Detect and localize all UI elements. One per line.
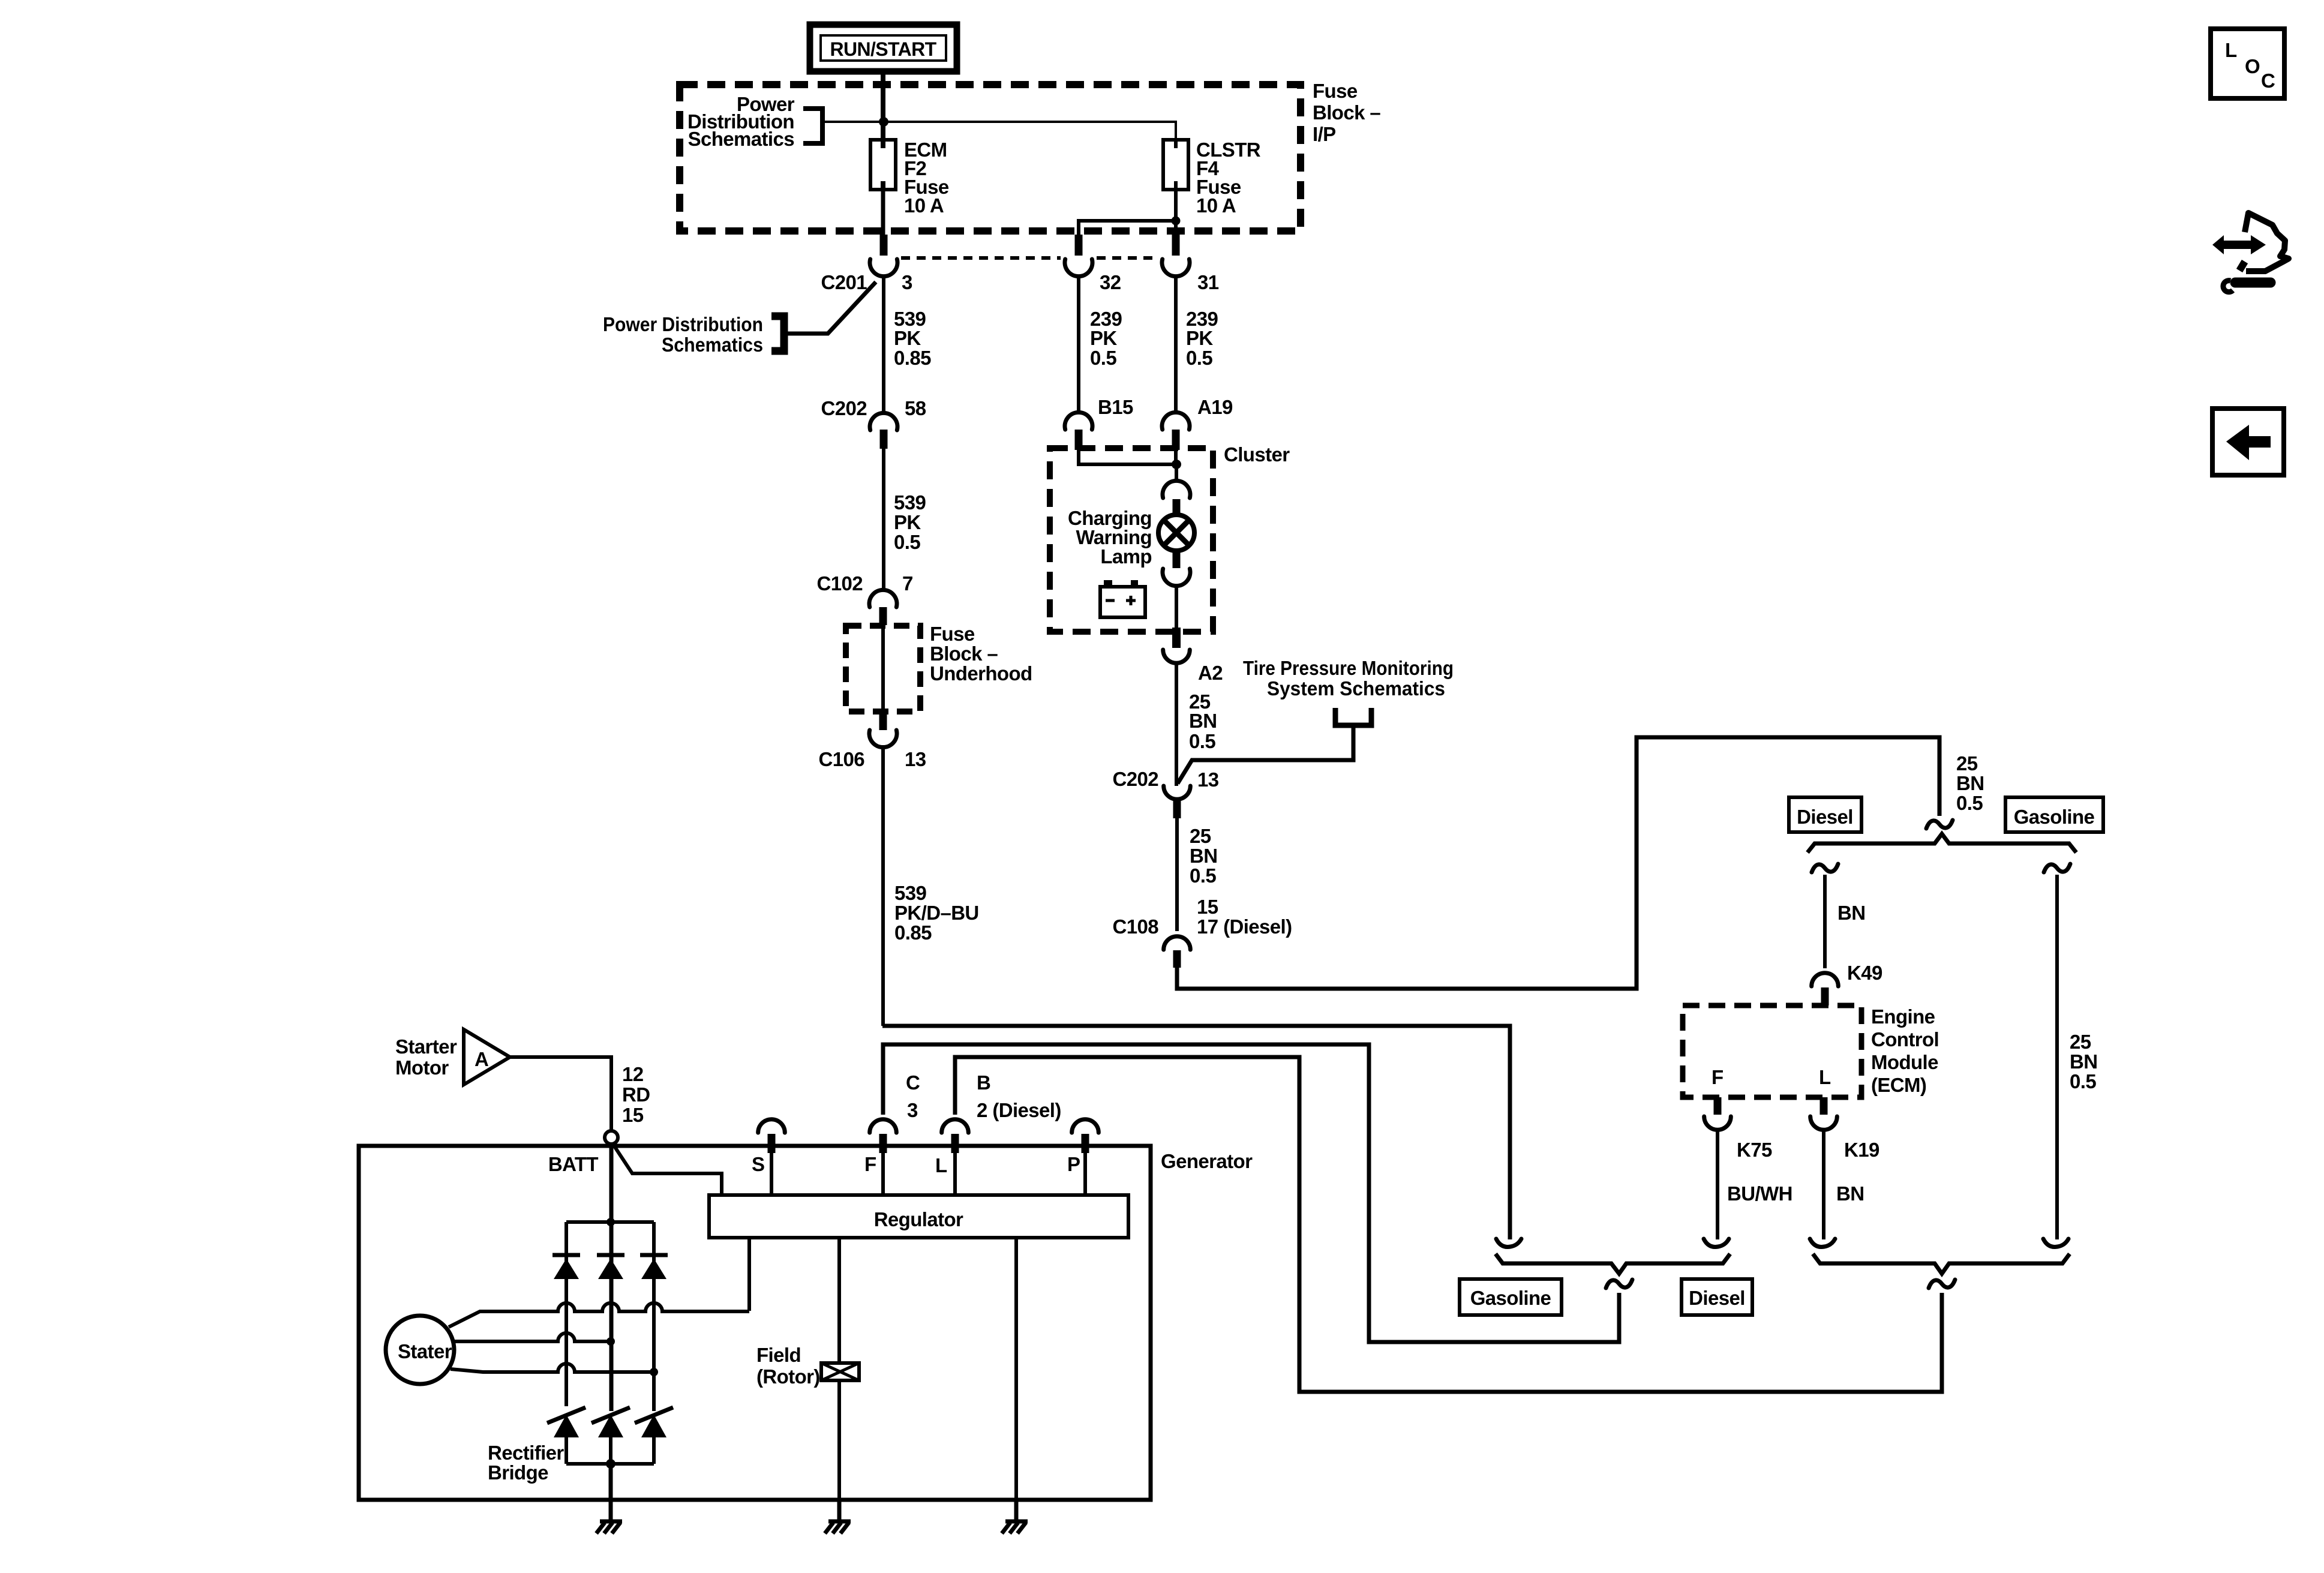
svg-text:BN: BN: [1836, 1182, 1864, 1205]
wire 539 PK/D-BU 0.85: [881, 745, 885, 1026]
svg-text:L: L: [2225, 39, 2237, 61]
svg-text:15: 15: [622, 1104, 644, 1126]
wire BATT to regulator: [612, 1143, 722, 1195]
node rectifier bottom: [606, 1459, 615, 1469]
svg-text:PK: PK: [1186, 327, 1213, 349]
wire BU/WH: [1716, 1131, 1719, 1239]
svg-text:PK: PK: [894, 327, 921, 349]
connector C106 pin 13: [869, 713, 897, 748]
svg-text:C201: C201: [821, 271, 867, 293]
label 539 PK 0.85: [894, 308, 931, 369]
ground field: [837, 1500, 842, 1521]
connector C108: [1164, 936, 1191, 968]
diode rectifier bottom x=1018: [591, 1407, 630, 1437]
svg-text:C102: C102: [817, 572, 863, 595]
wire 539 PK 0.85: [882, 275, 885, 413]
label ECM F2 Fuse 10 A: [904, 139, 949, 217]
rectifier top bus: [566, 1220, 654, 1224]
wire L to regulator: [953, 1153, 957, 1195]
wire 25 BN 0.5 gasoline: [2055, 875, 2059, 1239]
brace diesel/gasoline split: [1807, 834, 2076, 852]
brace splice L wire: [1813, 1254, 2070, 1274]
connector row C201 dashed line: [901, 256, 1061, 260]
svg-text:Bridge: Bridge: [488, 1461, 548, 1484]
engine control module dashed box: [1683, 1005, 1861, 1097]
svg-text:Schematics: Schematics: [688, 128, 794, 150]
wire stator phase 3: [451, 1364, 654, 1372]
connector C102 pin 7: [869, 590, 897, 625]
label 539 PK/D-BU 0.85: [894, 882, 979, 944]
lamp top terminal: [1163, 481, 1190, 515]
wire 12 RD 15: [510, 1057, 611, 1131]
wire bracket to C201: [784, 282, 876, 334]
label CLSTR F4 Fuse 10 A: [1196, 139, 1261, 217]
label Field (Rotor): [756, 1344, 820, 1388]
svg-text:25: 25: [1956, 752, 1978, 775]
ground generator BATT leg: [609, 1500, 613, 1521]
svg-text:PK/D–BU: PK/D–BU: [894, 902, 979, 924]
svg-text:Lamp: Lamp: [1100, 545, 1152, 568]
stator winding: [386, 1316, 454, 1384]
svg-text:Stater: Stater: [398, 1340, 452, 1362]
svg-text:Gasoline: Gasoline: [2014, 806, 2095, 828]
svg-text:Diesel: Diesel: [1689, 1287, 1745, 1309]
icon back arrow box: [2212, 409, 2284, 475]
wire lower diodes to bus: [565, 1437, 568, 1464]
svg-text:Generator: Generator: [1161, 1150, 1253, 1172]
svg-text:0.5: 0.5: [1956, 792, 1983, 814]
svg-text:58: 58: [905, 397, 926, 419]
label box Diesel (bottom): [1682, 1279, 1752, 1315]
svg-text:25: 25: [2070, 1031, 2091, 1053]
label 239 PK 0.5 (left): [1090, 308, 1122, 369]
label Fuse Block - I/P: [1313, 80, 1380, 145]
svg-text:0.5: 0.5: [1090, 347, 1116, 369]
wire 239 PK 0.5 (pin 31): [1174, 275, 1178, 413]
diode rectifier top x=1090: [640, 1255, 668, 1279]
fuse block underhood dashed box: [846, 626, 920, 712]
svg-text:17 (Diesel): 17 (Diesel): [1197, 915, 1292, 938]
wire 539 PK 0.5: [882, 449, 885, 592]
diode rectifier top x=944: [553, 1255, 580, 1279]
wire branch to pin 32: [1079, 221, 1176, 235]
wire C108 to engine harness: [1177, 737, 1939, 989]
wire regulator to stator sense: [747, 1238, 751, 1311]
starter motor terminal A: [464, 1029, 510, 1085]
connector K49: [1812, 973, 1839, 1005]
svg-text:0.5: 0.5: [1190, 864, 1216, 887]
svg-text:3: 3: [907, 1099, 918, 1121]
connector generator F (C pin 3): [870, 1119, 897, 1153]
svg-text:K19: K19: [1844, 1139, 1879, 1161]
svg-text:Field: Field: [756, 1344, 801, 1366]
bracket TPMS: [1335, 708, 1371, 725]
svg-text:I/P: I/P: [1313, 123, 1336, 145]
field rotor winding: [821, 1363, 859, 1380]
label 25 BN 0.5 (A2): [1189, 691, 1217, 752]
connector generator P: [1072, 1119, 1099, 1153]
hook end PK/D-BU: [1496, 1239, 1521, 1247]
node rectifier top: [606, 1218, 615, 1226]
wire node to CLSTR fuse: [884, 122, 1176, 148]
wire B15 to lamp node: [1079, 450, 1176, 464]
connector A2: [1163, 628, 1190, 663]
generator box: [359, 1146, 1151, 1500]
svg-text:Control: Control: [1871, 1028, 1939, 1050]
wire bracket to node: [822, 121, 884, 123]
squiggle F splice: [1606, 1280, 1632, 1288]
svg-text:Fuse: Fuse: [1313, 80, 1358, 102]
svg-text:C: C: [906, 1071, 920, 1094]
starter motor label: [395, 1035, 457, 1079]
wire A19 down: [1174, 450, 1178, 463]
label 239 PK 0.5 (right): [1186, 308, 1218, 369]
wire F to regulator: [881, 1153, 885, 1195]
svg-text:C108: C108: [1113, 915, 1159, 938]
label 12 RD 15: [622, 1063, 650, 1126]
squiggle L splice: [1929, 1280, 1955, 1288]
svg-text:Tire Pressure Monitoring: Tire Pressure Monitoring: [1243, 657, 1454, 679]
svg-text:System Schematics: System Schematics: [1267, 677, 1445, 700]
svg-text:RUN/START: RUN/START: [830, 38, 936, 60]
wire lamp to A2: [1175, 584, 1178, 629]
connector generator L (B pin 2): [942, 1119, 969, 1153]
svg-text:Block –: Block –: [1313, 101, 1380, 124]
label Fuse Block - Underhood: [930, 623, 1032, 685]
label box Gasoline (bottom): [1460, 1279, 1562, 1315]
connector C202 pin 13: [1164, 786, 1191, 818]
battery symbol: [1100, 580, 1145, 617]
svg-text:0.5: 0.5: [894, 531, 920, 553]
svg-text:Gasoline: Gasoline: [1470, 1287, 1551, 1309]
svg-text:25: 25: [1190, 825, 1211, 847]
ground regulator: [1014, 1500, 1019, 1521]
label Rectifier Bridge: [488, 1442, 564, 1484]
wire A2 to C202: [1175, 665, 1178, 786]
wire stator phase 1: [449, 1303, 749, 1327]
label 25 BN 0.5 (gasoline): [2070, 1031, 2097, 1092]
svg-text:7: 7: [902, 572, 913, 595]
node phase 3: [650, 1368, 658, 1376]
svg-text:Starter: Starter: [395, 1035, 457, 1058]
node below CLSTR fuse: [1172, 217, 1181, 226]
connector B15: [1065, 412, 1092, 450]
svg-text:0.85: 0.85: [894, 347, 931, 369]
svg-text:BN: BN: [1956, 772, 1984, 794]
wire field to ground: [837, 1380, 841, 1500]
svg-text:539: 539: [894, 491, 926, 514]
svg-text:BN: BN: [2070, 1050, 2097, 1073]
svg-text:31: 31: [1197, 271, 1219, 293]
svg-text:PK: PK: [1090, 327, 1117, 349]
wire ECM fuse to C201: [881, 190, 885, 235]
wire rectifier leg 3: [652, 1222, 656, 1411]
svg-text:Power Distribution: Power Distribution: [603, 313, 763, 335]
svg-text:K49: K49: [1847, 962, 1882, 984]
regulator box: [709, 1195, 1128, 1238]
svg-text:P: P: [1067, 1153, 1080, 1175]
svg-text:(Rotor): (Rotor): [756, 1365, 820, 1388]
svg-text:Fuse: Fuse: [930, 623, 975, 645]
connector A19: [1162, 412, 1190, 450]
diode rectifier bottom x=944: [547, 1407, 585, 1437]
charging warning lamp: [1158, 515, 1194, 551]
label box Diesel (top): [1789, 797, 1861, 832]
label Power Distribution Schematics (C201): [603, 313, 763, 356]
svg-text:F: F: [1712, 1066, 1724, 1088]
wire S to regulator: [770, 1153, 773, 1195]
node lamp feed: [1172, 460, 1181, 469]
node junction at RUN/START feed: [879, 117, 888, 127]
svg-text:10 A: 10 A: [1196, 194, 1236, 217]
wire BN to K49: [1823, 875, 1827, 968]
connector C201 pin 32: [1065, 235, 1092, 277]
svg-text:Engine: Engine: [1871, 1005, 1935, 1028]
label Tire Pressure Monitoring System Schematics: [1243, 657, 1454, 700]
svg-text:Block –: Block –: [930, 643, 998, 665]
fuse block I/P dashed box: [680, 85, 1301, 231]
svg-text:12: 12: [622, 1063, 644, 1085]
bracket Power Distribution Schematics (top): [803, 109, 822, 143]
rectifier bottom bus: [566, 1462, 654, 1466]
label Engine Control Module (ECM): [1871, 1005, 1939, 1096]
wire rectifier leg 2 (BATT): [609, 1144, 614, 1411]
wire stator phase 2: [454, 1333, 611, 1341]
svg-text:C106: C106: [819, 748, 865, 770]
svg-text:F: F: [864, 1153, 876, 1175]
svg-text:L: L: [1819, 1066, 1831, 1088]
connector generator S: [758, 1119, 785, 1153]
svg-text:Regulator: Regulator: [874, 1208, 963, 1230]
label 25 BN 0.5 (top right): [1956, 752, 1984, 814]
wire P to regulator: [1083, 1153, 1087, 1195]
svg-text:C: C: [2261, 70, 2275, 92]
svg-text:539: 539: [894, 882, 927, 904]
wire generator L to splice: [955, 1057, 1942, 1392]
connector C201 pin 31: [1162, 235, 1190, 277]
hook end 25 BN gasoline: [2043, 1239, 2068, 1247]
wire generator F to splice: [883, 1044, 1619, 1342]
lamp bottom terminal: [1163, 551, 1190, 586]
svg-text:B15: B15: [1098, 396, 1133, 418]
svg-text:Diesel: Diesel: [1797, 806, 1853, 828]
wire C106 feed to splice: [882, 1026, 1510, 1239]
diode rectifier bottom x=1090: [635, 1407, 673, 1437]
label 539 PK 0.5: [894, 491, 926, 553]
label box Gasoline (top): [2005, 797, 2103, 832]
svg-text:0.85: 0.85: [894, 921, 932, 944]
svg-text:0.5: 0.5: [2070, 1070, 2096, 1092]
svg-text:C202: C202: [821, 397, 867, 419]
svg-text:Motor: Motor: [395, 1056, 449, 1079]
connector C202 pin 58: [870, 413, 897, 449]
svg-text:RD: RD: [622, 1083, 650, 1106]
bracket Power Distribution Schematics (C201): [771, 316, 784, 351]
svg-text:Rectifier: Rectifier: [488, 1442, 564, 1464]
svg-text:BU/WH: BU/WH: [1727, 1182, 1792, 1205]
svg-text:B: B: [977, 1071, 990, 1094]
svg-text:(ECM): (ECM): [1871, 1074, 1926, 1096]
label Power Distribution Schematics (top): [687, 93, 795, 150]
wire RUN/START to ECM fuse: [881, 71, 885, 148]
svg-text:BN: BN: [1837, 902, 1865, 924]
svg-text:L: L: [935, 1154, 947, 1176]
fuse CLSTR F4 10A: [1163, 140, 1188, 190]
svg-text:32: 32: [1100, 271, 1121, 293]
svg-text:BATT: BATT: [548, 1153, 599, 1175]
svg-text:10 A: 10 A: [904, 194, 944, 217]
node phase 2: [606, 1337, 615, 1346]
connector K75 (pin F): [1704, 1097, 1731, 1130]
svg-text:BN: BN: [1189, 710, 1217, 732]
svg-text:13: 13: [1197, 769, 1219, 791]
hook end BU/WH: [1704, 1239, 1729, 1247]
svg-text:Underhood: Underhood: [930, 662, 1032, 685]
wire rectifier leg 1: [565, 1222, 568, 1406]
wire 239 PK 0.5 (pin 32): [1077, 275, 1080, 413]
svg-text:3: 3: [902, 271, 912, 293]
svg-text:O: O: [2245, 55, 2260, 77]
svg-text:A: A: [475, 1048, 488, 1070]
wire 25 BN 0.5 to C108: [1175, 818, 1179, 931]
brace splice F wire: [1496, 1254, 1730, 1274]
svg-text:Module: Module: [1871, 1051, 1938, 1073]
svg-text:S: S: [752, 1153, 764, 1175]
svg-text:A2: A2: [1198, 662, 1223, 684]
svg-text:A19: A19: [1197, 396, 1233, 418]
switch RUN/START ignition feed: [810, 25, 957, 71]
hook end BN: [1810, 1239, 1835, 1247]
fuse ECM F2 10A: [870, 140, 896, 190]
wire through underhood block: [881, 625, 885, 713]
svg-text:2 (Diesel): 2 (Diesel): [977, 1099, 1061, 1121]
wire regulator to ground: [1014, 1238, 1018, 1500]
connector C201 pin 3: [870, 235, 897, 277]
label Charging Warning Lamp: [1068, 507, 1152, 568]
svg-text:PK: PK: [894, 511, 921, 533]
terminal BATT ring: [605, 1131, 618, 1144]
wire BATT leg to ground: [609, 1464, 613, 1521]
wire TPMS to C202: [1178, 725, 1353, 784]
cluster dashed box: [1050, 448, 1213, 632]
squiggle gasoline branch: [2044, 864, 2070, 872]
squiggle harness top: [1926, 820, 1953, 828]
connector K19 (pin L): [1810, 1097, 1837, 1130]
svg-text:K75: K75: [1737, 1139, 1772, 1161]
svg-text:0.5: 0.5: [1189, 730, 1215, 752]
squiggle diesel branch: [1812, 864, 1838, 872]
wire CLSTR fuse down: [1174, 190, 1178, 235]
wire regulator to field: [837, 1238, 841, 1363]
svg-text:Cluster: Cluster: [1224, 443, 1290, 466]
svg-text:15: 15: [1197, 896, 1218, 918]
diode rectifier top x=1018: [597, 1255, 624, 1279]
svg-text:Schematics: Schematics: [662, 334, 763, 356]
icon vehicle direction with wrench: [2212, 213, 2289, 292]
label 25 BN 0.5 (C202-C108): [1190, 825, 1217, 887]
icon LOC box: [2211, 29, 2284, 98]
svg-text:C202: C202: [1113, 768, 1159, 790]
svg-text:13: 13: [905, 748, 926, 770]
wire BN (K19): [1822, 1131, 1825, 1239]
svg-text:BN: BN: [1190, 845, 1217, 867]
svg-text:0.5: 0.5: [1186, 347, 1212, 369]
